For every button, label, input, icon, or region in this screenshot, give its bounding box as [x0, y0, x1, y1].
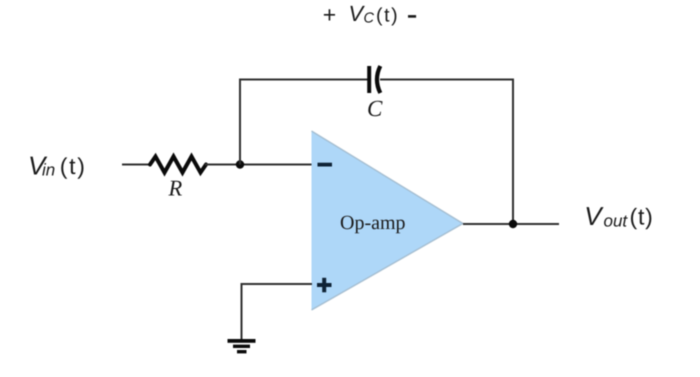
svg-text:(t): (t) [60, 153, 87, 179]
wire feedback left vertical [239, 80, 241, 165]
svg-text:C: C [364, 11, 375, 27]
wire capacitor to feedback right vertical [380, 79, 514, 81]
node A junction dot [236, 160, 244, 168]
wire ground vertical [241, 283, 243, 340]
wire output [463, 223, 559, 225]
svg-text:out: out [604, 212, 629, 231]
svg-text:(t): (t) [630, 204, 654, 230]
svg-text:(t): (t) [376, 5, 399, 27]
wire non-inverting input to ground horizontal [241, 283, 313, 285]
svg-text:+: + [323, 1, 336, 27]
capacitor voltage label + VC(t) - [323, 1, 416, 27]
wire feedback right vertical [512, 79, 514, 225]
svg-text:Op-amp: Op-amp [340, 212, 406, 234]
resistor R [150, 157, 206, 173]
label C [367, 96, 383, 121]
wire resistor to op-amp inverting input [205, 164, 312, 166]
svg-text:in: in [42, 161, 55, 180]
capacitor C [367, 66, 380, 93]
label R [168, 176, 183, 201]
non-inverting input plus symbol [317, 278, 332, 293]
svg-text:R: R [168, 176, 183, 201]
input label Vin(t) [28, 151, 87, 181]
output label Vout(t) [584, 201, 653, 231]
wire feedback top left to capacitor [239, 79, 368, 81]
ground symbol [228, 339, 256, 353]
wire input lead [122, 164, 151, 166]
op-amp U1 triangle [312, 131, 464, 310]
inverting input minus symbol [318, 163, 333, 167]
svg-text:V: V [584, 201, 604, 231]
node B output junction dot [509, 220, 517, 228]
svg-text:C: C [367, 96, 383, 121]
op-amp label [340, 212, 406, 234]
